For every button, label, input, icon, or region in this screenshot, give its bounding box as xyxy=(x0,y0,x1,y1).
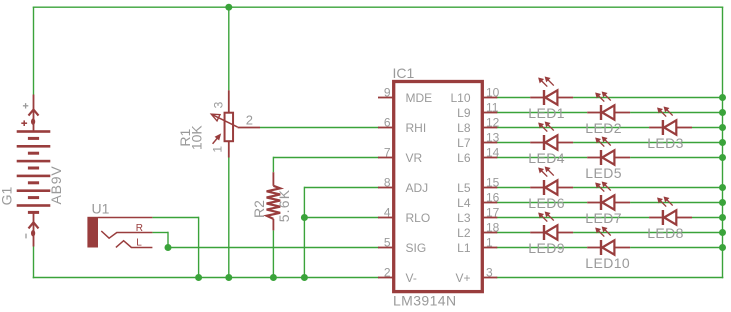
svg-text:7: 7 xyxy=(384,145,391,159)
svg-text:5.6K: 5.6K xyxy=(276,189,292,223)
LED LED9 xyxy=(530,212,573,240)
svg-text:L9: L9 xyxy=(457,106,471,120)
junction LED3 row / right rail xyxy=(719,124,726,131)
junction LED1 row / right rail xyxy=(719,94,726,101)
svg-text:LED9: LED9 xyxy=(528,240,565,256)
junction ADJ / RLO xyxy=(301,214,308,221)
svg-text:2: 2 xyxy=(384,265,391,279)
svg-text:2: 2 xyxy=(246,113,253,128)
wire LED10 to right rail xyxy=(630,247,722,249)
svg-text:RLO: RLO xyxy=(406,211,431,225)
wire jack R contact to SIG node xyxy=(152,232,168,234)
wire IC output pin row 4 to LED4 xyxy=(496,142,530,144)
IC1 pin 1 (L1) stub xyxy=(482,247,497,249)
svg-text:LED1: LED1 xyxy=(528,105,565,121)
wire left rail lower (battery -) xyxy=(33,247,35,279)
wire top V+ rail xyxy=(33,6,724,8)
LED LED6 xyxy=(530,167,573,195)
svg-text:LED10: LED10 xyxy=(585,255,630,271)
svg-text:L4: L4 xyxy=(457,196,471,210)
svg-text:L3: L3 xyxy=(457,211,471,225)
junction LED10 row / right rail xyxy=(719,244,726,251)
svg-text:16: 16 xyxy=(486,190,500,204)
wire IC output pin row 3 to LED3 xyxy=(496,127,649,129)
IC1 pin 7 (VR) stub xyxy=(378,157,394,159)
wire IC output pin row 8 to LED7 xyxy=(496,202,587,204)
IC1 pin 3 (V+) stub xyxy=(482,277,497,279)
connector U1 (audio jack) xyxy=(87,217,152,248)
wire LED2 to right rail xyxy=(630,112,722,114)
junction LED8 row / right rail xyxy=(719,214,726,221)
IC1 pin 11 (L9) stub xyxy=(482,112,497,114)
svg-text:LM3914N: LM3914N xyxy=(393,293,457,309)
junction jack sleeve / V- rail xyxy=(195,274,202,281)
svg-text:12: 12 xyxy=(486,115,500,129)
svg-text:L8: L8 xyxy=(457,121,471,135)
IC1 pin 8 (ADJ) stub xyxy=(378,187,394,189)
svg-text:10: 10 xyxy=(486,85,500,99)
svg-text:U1: U1 xyxy=(92,200,110,216)
wire LED4 to right rail xyxy=(573,142,722,144)
wire LED8 to right rail xyxy=(692,217,723,219)
wire R1 bottom to V- rail xyxy=(228,156,230,278)
LED LED5 xyxy=(587,137,630,165)
battery G1 xyxy=(17,95,51,247)
svg-text:10K: 10K xyxy=(189,125,205,151)
wire V+ from IC pin 3 to right rail xyxy=(496,277,723,279)
LED LED1 xyxy=(530,77,573,105)
wire IC output pin row 1 to LED1 xyxy=(496,97,530,99)
IC1 pin 5 (SIG) stub xyxy=(378,247,394,249)
IC1 pin 15 (L5) stub xyxy=(482,187,497,189)
wire IC output pin row 2 to LED2 xyxy=(496,112,587,114)
IC1 pin 12 (L8) stub xyxy=(482,127,497,129)
svg-text:13: 13 xyxy=(486,130,500,144)
wire R2 bottom to V- rail xyxy=(272,230,274,277)
svg-text:R2: R2 xyxy=(251,200,267,218)
wire VR: R2 top to IC pin 7 xyxy=(273,157,379,159)
svg-text:LED6: LED6 xyxy=(528,195,565,211)
junction jack contacts / SIG xyxy=(165,244,172,251)
svg-text:L5: L5 xyxy=(457,181,471,195)
IC1 pin 6 (RHI) stub xyxy=(378,127,394,129)
svg-text:LED7: LED7 xyxy=(585,210,622,226)
resistor R2 xyxy=(267,172,281,230)
svg-text:1: 1 xyxy=(486,235,493,249)
potentiometer R1 xyxy=(211,90,260,157)
op-amp/IC U1 box IC1 xyxy=(394,82,483,292)
junction LED9 row / right rail xyxy=(719,229,726,236)
svg-text:L1: L1 xyxy=(457,241,471,255)
wire LED5 to right rail xyxy=(630,157,722,159)
svg-text:L6: L6 xyxy=(457,151,471,165)
svg-text:3: 3 xyxy=(211,101,225,108)
LED LED3 xyxy=(649,107,692,135)
svg-text:LED2: LED2 xyxy=(585,120,622,136)
junction top rail / R1 xyxy=(225,4,232,11)
IC1 pin 16 (L4) stub xyxy=(482,202,497,204)
wire IC output pin row 5 to LED5 xyxy=(496,157,587,159)
svg-text:11: 11 xyxy=(486,100,499,114)
svg-text:R: R xyxy=(136,223,143,234)
svg-text:LED8: LED8 xyxy=(647,225,684,241)
LED LED10 xyxy=(587,227,630,255)
svg-text:4: 4 xyxy=(384,205,391,219)
LED LED2 xyxy=(587,92,630,120)
svg-text:LED3: LED3 xyxy=(647,135,684,151)
wire RHI: R1 wiper to IC pin 6 xyxy=(260,127,379,129)
wire R1 top to V+ rail xyxy=(228,7,230,90)
junction LED6 row / right rail xyxy=(719,184,726,191)
IC1 pin 13 (L7) stub xyxy=(482,142,497,144)
IC1 pin 4 (RLO) stub xyxy=(378,217,394,219)
wire jack sleeve to V- rail xyxy=(152,217,198,219)
IC1 pin 14 (L6) stub xyxy=(482,157,497,159)
svg-text:6: 6 xyxy=(384,115,391,129)
svg-text:L: L xyxy=(136,237,142,248)
svg-text:9: 9 xyxy=(384,85,391,99)
wire LED1 to right rail xyxy=(573,97,722,99)
svg-text:L2: L2 xyxy=(457,226,471,240)
svg-text:G1: G1 xyxy=(0,186,14,205)
LED LED8 xyxy=(649,197,692,225)
IC1 pin 10 (L10) stub xyxy=(482,97,497,99)
wire bottom V- rail to IC pin 2 xyxy=(33,277,379,279)
wire left rail upper (battery +) xyxy=(33,7,35,94)
junction LED7 row / right rail xyxy=(719,199,726,206)
wire IC output pin row 10 to LED9 xyxy=(496,232,530,234)
svg-text:15: 15 xyxy=(486,175,500,189)
junction LED4 row / right rail xyxy=(719,139,726,146)
junction ADJ wire / V- rail xyxy=(301,274,308,281)
junction R1 / V- rail xyxy=(225,274,232,281)
svg-text:IC1: IC1 xyxy=(393,65,415,81)
svg-text:SIG: SIG xyxy=(406,241,427,255)
svg-text:14: 14 xyxy=(486,145,500,159)
wire SIG: jack to IC pin 5 xyxy=(168,247,379,249)
wire LED6 to right rail xyxy=(573,187,722,189)
svg-text:AB9V: AB9V xyxy=(48,166,64,205)
svg-text:17: 17 xyxy=(486,205,500,219)
junction R2 / V- rail xyxy=(270,274,277,281)
svg-text:ADJ: ADJ xyxy=(406,181,429,195)
svg-text:LED5: LED5 xyxy=(585,165,622,181)
wire LED7 to right rail xyxy=(630,202,722,204)
junction LED5 row / right rail xyxy=(719,154,726,161)
IC1 pin 2 (V-) stub xyxy=(378,277,394,279)
LED LED4 xyxy=(530,122,573,150)
svg-text:18: 18 xyxy=(486,220,500,234)
wire right rail xyxy=(722,7,724,278)
wire IC output pin row 7 to LED6 xyxy=(496,187,530,189)
wire ADJ: IC pin 8 down to V- rail xyxy=(304,187,379,189)
svg-text:RHI: RHI xyxy=(406,121,427,135)
svg-text:V+: V+ xyxy=(455,271,470,285)
wire RLO: IC pin 4 to ADJ/V- vertical xyxy=(304,217,379,219)
junction LED2 row / right rail xyxy=(719,109,726,116)
IC1 pin 18 (L2) stub xyxy=(482,232,497,234)
svg-text:V-: V- xyxy=(406,271,417,285)
svg-text:LED4: LED4 xyxy=(528,150,565,166)
svg-text:MDE: MDE xyxy=(406,91,433,105)
svg-text:5: 5 xyxy=(384,235,391,249)
wire LED3 to right rail xyxy=(692,127,723,129)
svg-text:L10: L10 xyxy=(450,91,470,105)
svg-text:8: 8 xyxy=(384,175,391,189)
LED LED7 xyxy=(587,182,630,210)
wire IC output pin row 11 to LED10 xyxy=(496,247,587,249)
svg-text:L7: L7 xyxy=(457,136,471,150)
IC1 pin 9 (MDE) stub xyxy=(378,97,394,99)
wire IC output pin row 9 to LED8 xyxy=(496,217,649,219)
svg-text:1: 1 xyxy=(210,146,224,153)
wire LED9 to right rail xyxy=(573,232,722,234)
svg-text:VR: VR xyxy=(406,151,423,165)
IC1 pin 17 (L3) stub xyxy=(482,217,497,219)
svg-text:3: 3 xyxy=(486,265,493,279)
